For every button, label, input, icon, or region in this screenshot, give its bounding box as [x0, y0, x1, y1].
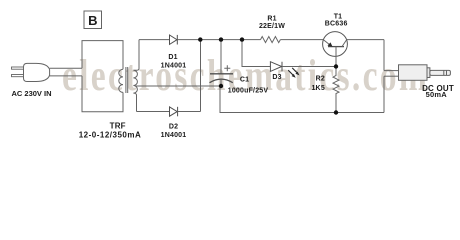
resistor R2: [333, 67, 339, 113]
diode D1: [170, 35, 178, 44]
barrel body: [399, 65, 428, 81]
resistor R1: [261, 37, 281, 43]
collar: [427, 68, 430, 78]
block label B box: [84, 11, 102, 29]
svg-text:22E/1W: 22E/1W: [259, 23, 285, 30]
svg-text:50mA: 50mA: [426, 90, 448, 99]
pin: [430, 70, 451, 75]
svg-text:T1: T1: [334, 14, 343, 21]
junction node dots: [198, 37, 338, 114]
transformer TRF primary coil: [119, 69, 123, 92]
transformer TRF secondary coil: [133, 40, 139, 112]
svg-text:D2: D2: [169, 124, 178, 131]
svg-text:AC 230V IN: AC 230V IN: [11, 89, 51, 98]
wire R1 to T1: [280, 39, 323, 41]
wire D2 to join: [178, 111, 201, 113]
T1 internal bar: [328, 46, 344, 48]
wire stub to DC plug top: [384, 70, 399, 72]
svg-text:R1: R1: [267, 15, 276, 22]
wire C1 neg down to bottom rail: [220, 86, 384, 113]
LED D3 arrows: [288, 68, 299, 78]
diode D2: [170, 107, 178, 116]
wire cord bottom: [50, 75, 82, 77]
wire primary loop bottom: [82, 76, 123, 112]
T1 collector diagonal: [342, 40, 347, 47]
wire right vertical lower: [383, 76, 385, 112]
svg-text:D3: D3: [272, 74, 281, 81]
transistor T1 circle: [323, 32, 348, 57]
wire top rail left: [139, 39, 170, 41]
node T1 base / D3 / R2: [334, 64, 338, 68]
capacitor C1 bottom lead: [220, 79, 222, 86]
svg-text:BC636: BC636: [325, 21, 348, 28]
node C1 on top rail: [219, 37, 223, 41]
node D2 join on top rail: [198, 37, 202, 41]
wire cord top: [50, 67, 82, 69]
watermark electroschematics.com: [62, 52, 429, 100]
wire primary loop top: [82, 41, 123, 70]
node D3 branch on top rail: [240, 37, 244, 41]
plug prong top: [12, 67, 24, 69]
svg-text:D1: D1: [168, 54, 177, 61]
node C1 negative: [219, 84, 223, 88]
capacitor C1 top lead: [220, 40, 222, 74]
capacitor C1 plates: [210, 73, 233, 75]
wire branch to D3: [242, 40, 270, 67]
wire D3 to base node: [282, 66, 336, 68]
svg-text:B: B: [88, 13, 97, 28]
svg-text:1K5: 1K5: [311, 85, 324, 92]
pin ring ticks: [444, 70, 447, 75]
LED D3: [270, 62, 281, 72]
svg-text:C1: C1: [240, 77, 249, 84]
svg-text:R2: R2: [316, 75, 325, 82]
DC output plug: [399, 65, 451, 81]
T1 base lead: [335, 47, 337, 67]
svg-text:1000uF/25V: 1000uF/25V: [228, 87, 269, 94]
wire secondary bottom to D2: [137, 111, 170, 113]
svg-text:1N4001: 1N4001: [161, 132, 187, 139]
svg-text:TRF: TRF: [110, 121, 126, 130]
C1 plus sign: [224, 65, 230, 71]
wire D2 cathode up to top rail: [200, 40, 202, 112]
node R2 bottom rail: [334, 110, 338, 114]
T1 emitter arrow head: [328, 42, 333, 47]
wire top rail D1 to R1: [177, 39, 260, 41]
wire stub to DC plug bottom: [384, 75, 399, 77]
T1 emitter diagonal with arrow: [323, 40, 332, 47]
wire center tap to C1: [136, 85, 222, 87]
wire right vertical upper: [383, 40, 385, 71]
svg-text:1N4001: 1N4001: [161, 63, 187, 70]
wire top rail T1 to right corner: [347, 39, 384, 41]
transformer core: [125, 67, 127, 93]
plug prong bottom: [12, 75, 24, 77]
svg-text:12-0-12/350mA: 12-0-12/350mA: [79, 131, 142, 140]
AC plug body: [24, 63, 50, 81]
